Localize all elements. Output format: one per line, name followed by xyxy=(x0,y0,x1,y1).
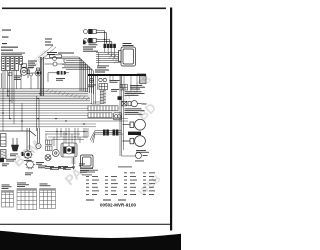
neutral switch grids xyxy=(46,140,53,151)
left resistor pack xyxy=(1,150,7,159)
connector strip A xyxy=(88,106,118,111)
brake switch x-box xyxy=(122,101,127,106)
oil switch label xyxy=(88,85,96,88)
sensor cluster xyxy=(99,78,108,89)
fuse main 30A xyxy=(57,71,67,75)
front turn signal lamps xyxy=(84,29,112,44)
ground bar drop wires xyxy=(92,76,138,104)
rear harness bundle xyxy=(90,76,136,156)
drain hatch arrow xyxy=(72,157,76,169)
connector row left xyxy=(2,57,23,71)
table 3 xyxy=(40,184,51,187)
headlight lower label xyxy=(97,66,109,69)
right page edge xyxy=(170,8,172,231)
headlight sub label xyxy=(58,53,74,54)
table 2 xyxy=(17,183,29,188)
connector pins xyxy=(2,58,22,69)
top page rule xyxy=(2,8,166,10)
tail light base dark xyxy=(128,132,141,135)
legend tick marks xyxy=(86,200,126,201)
license light bulb xyxy=(128,101,142,107)
rear turn signal left xyxy=(136,153,142,159)
bus junction dots xyxy=(2,91,84,125)
upper connector pair right xyxy=(83,41,86,45)
horn xyxy=(12,138,19,151)
turn signal relay gear xyxy=(23,128,32,159)
wire drops from connectors xyxy=(2,65,22,132)
bottom black shadow wedge xyxy=(0,231,181,250)
bus shade band xyxy=(0,88,90,102)
main harness vertical bundle xyxy=(40,57,43,96)
handlebar switch circles xyxy=(45,55,67,66)
headlight unit xyxy=(119,47,136,66)
bus hatched ribbon xyxy=(46,89,89,100)
vertical hatched bundle xyxy=(100,90,106,104)
ignition switch xyxy=(20,64,28,75)
text lamp labels xyxy=(83,47,98,52)
pulse generator xyxy=(45,155,51,161)
battery xyxy=(137,74,146,84)
text block mid-left xyxy=(28,61,37,68)
starter relay label xyxy=(125,91,145,96)
table 1 xyxy=(2,185,12,190)
oil pressure switch xyxy=(89,76,93,83)
pulse rotor sun symbol xyxy=(25,160,35,170)
flasher round xyxy=(52,150,59,157)
battery box xyxy=(81,155,94,168)
headlight label xyxy=(123,43,134,46)
alternator / engine xyxy=(61,143,77,157)
wire mesh lower-middle xyxy=(45,128,88,146)
svg-text:00502-MVR-9100: 00502-MVR-9100 xyxy=(100,202,137,207)
text ignition label xyxy=(45,39,57,56)
headlight wire hatch xyxy=(108,52,120,64)
legend headers xyxy=(80,167,132,173)
leader lines xyxy=(38,46,56,61)
wire bus horizontal xyxy=(0,89,128,127)
regulator rectifier xyxy=(120,85,128,91)
frame ground box xyxy=(118,96,122,100)
headlight connectors xyxy=(104,44,116,48)
junction dots lamps xyxy=(104,39,107,43)
engine drop wires xyxy=(57,128,86,150)
bus vertical taps xyxy=(22,96,39,131)
wire color legend xyxy=(82,172,156,195)
ground bar xyxy=(88,74,146,76)
rear connector pairs xyxy=(103,130,118,136)
label text rows top-left xyxy=(1,30,25,56)
watermark BDM PARTS WEB xyxy=(9,48,163,199)
wires into headlight xyxy=(96,48,121,66)
indicator bulbs box xyxy=(114,113,122,120)
spark unit rect xyxy=(0,158,4,162)
component labels lower xyxy=(10,154,68,169)
bottom page rule xyxy=(0,224,170,225)
lower text row xyxy=(2,164,85,176)
tail light bulbs xyxy=(123,119,146,146)
left fuse holder xyxy=(1,134,7,147)
mid-left small labels xyxy=(14,76,22,81)
bundle corner bends xyxy=(62,57,93,94)
connector strip B xyxy=(88,113,112,118)
clutch switch xyxy=(26,68,41,89)
dimmer switch stub xyxy=(9,73,33,89)
side stand switch wires xyxy=(36,128,41,149)
lower-left branch xyxy=(0,131,36,136)
